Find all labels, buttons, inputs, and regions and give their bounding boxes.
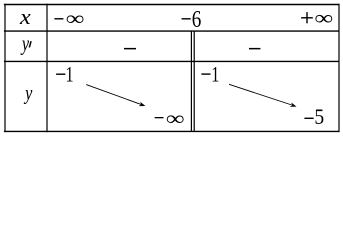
svg-text:∞: ∞: [166, 108, 185, 130]
svg-text:6: 6: [192, 6, 202, 32]
svg-text:y: y: [23, 81, 32, 105]
svg-text:5: 5: [314, 104, 324, 129]
svg-text:x: x: [19, 5, 31, 30]
svg-text:1: 1: [65, 63, 73, 87]
svg-text:y: y: [20, 32, 29, 56]
svg-text:∞: ∞: [314, 7, 333, 29]
svg-text:∞: ∞: [66, 8, 85, 30]
svg-text:1: 1: [211, 63, 219, 87]
